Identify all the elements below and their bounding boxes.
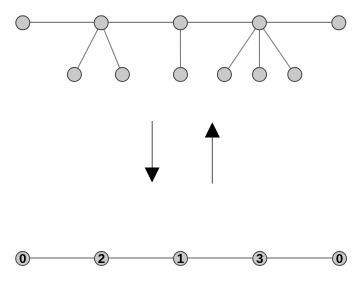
wire spine edge v3-v4 — [259, 21, 338, 23]
svg-text:1: 1 — [177, 251, 184, 266]
node spine v0 — [16, 16, 30, 30]
wire up-arrow shaft — [211, 138, 213, 184]
svg-text:0: 0 — [19, 251, 26, 266]
wire path edge n1-n2 — [102, 257, 181, 259]
node n0 label 0 — [16, 251, 30, 266]
wire spine edge v1-v2 — [101, 21, 180, 23]
wire edge v1-leaf1 — [74, 23, 101, 75]
wire path edge n3-n4 — [260, 257, 340, 259]
down-arrow head — [145, 168, 160, 183]
node leaf3 — [174, 68, 188, 82]
node leaf4 — [217, 68, 231, 82]
node leaf6 — [288, 68, 302, 82]
node n1 label 2 — [95, 251, 109, 266]
wire edge v3-leaf5 — [258, 23, 260, 75]
wire edge v3-leaf6 — [259, 23, 294, 75]
wire down-arrow shaft — [151, 121, 153, 168]
wire edge v3-leaf4 — [224, 23, 259, 75]
node leaf2 — [115, 68, 129, 82]
wire path edge n2-n3 — [181, 257, 260, 259]
svg-text:2: 2 — [98, 251, 105, 266]
node n2 label 1 — [174, 251, 188, 266]
node spine v2 — [173, 16, 187, 30]
node leaf1 — [67, 68, 81, 82]
node spine v1 — [94, 16, 108, 30]
node spine v3 — [252, 16, 266, 30]
up-arrow head — [205, 122, 220, 137]
svg-text:0: 0 — [336, 251, 343, 266]
wire edge v1-leaf2 — [101, 23, 122, 75]
node n3 label 3 — [253, 251, 267, 266]
svg-text:3: 3 — [256, 251, 263, 266]
wire path edge n0-n1 — [23, 257, 102, 259]
wire edge v2-leaf3 — [179, 23, 181, 75]
node leaf5 — [253, 68, 267, 82]
node spine v4 — [332, 16, 346, 30]
wire spine edge v0-v1 — [23, 21, 101, 23]
wire spine edge v2-v3 — [180, 21, 259, 23]
node n4 label 0 — [333, 251, 347, 266]
